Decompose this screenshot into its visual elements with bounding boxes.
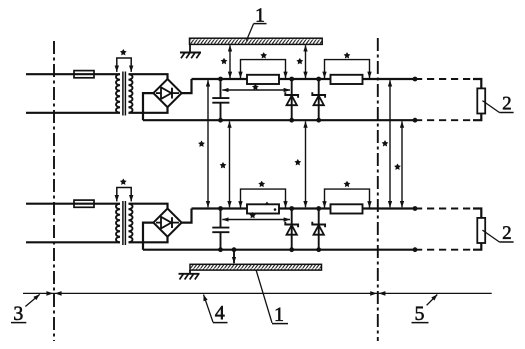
measurement bracket with star (R2 bottom) (325, 181, 370, 207)
bridge rectifier Vbottom (153, 209, 181, 237)
wire DC- rail (top) (143, 119, 415, 121)
label 3 (zone) (11, 294, 40, 322)
clearance arrow shield to DC+ at x305 with star (297, 45, 305, 78)
wire DC+ dashed output (bottom) (413, 206, 482, 218)
coupling arrow DC-top to DC+bottom at x229 with star (220, 121, 229, 207)
bridge rectifier Vtop (153, 79, 181, 107)
label 5 (zone) (412, 295, 438, 323)
dimension arrows at boundary 3/4 (46, 291, 61, 296)
measurement bracket with star (R1 top) (241, 53, 286, 78)
wire secondary top (bottom) (129, 204, 168, 209)
isolation bracket with star (transformer Tbottom) (117, 179, 131, 201)
boundary line 3/4 (dash-dot) (53, 41, 55, 341)
capacitor Cbottom (212, 206, 229, 252)
ground (top shield) (180, 44, 201, 58)
transformer Ttop (116, 72, 133, 116)
measurement bracket with star (R1 bottom) (241, 181, 286, 207)
zener diode VD1 (bottom) (285, 206, 298, 252)
wire secondary top (top) (129, 74, 168, 79)
zener diode VD1 (top) (285, 77, 298, 123)
wire bridge left corner to DC- (bottom) (143, 223, 153, 250)
dimension line (zones) (23, 292, 492, 294)
wire AC line bottom (bottom) (26, 241, 120, 243)
wire AC line bottom (top) (26, 112, 120, 114)
wire bridge right corner to DC+ (bottom) (182, 209, 192, 223)
wire DC- dashed output (bottom) (413, 243, 482, 252)
wire DC- rail (bottom) (143, 249, 415, 251)
wire bridge left corner to DC- (top) (143, 93, 153, 120)
ground (bottom shield) (179, 270, 200, 279)
transformer Tbottom (116, 201, 133, 245)
label 2 (bottom) (482, 226, 513, 242)
resistor R2 (top) (331, 75, 363, 84)
clearance arrow capacitor to VD1 with star (top) (222, 84, 290, 90)
coupling arrow DC+top to DC+bottom at x208 with star (199, 80, 208, 207)
label 2 (top) (482, 97, 513, 113)
wire bridge right corner to DC+ (top) (182, 79, 192, 93)
earth link DC- to shield (bottom) (232, 247, 237, 263)
capacitor Ctop (212, 77, 229, 123)
resistor R1 (bottom) (247, 204, 279, 213)
fuse Ftop (74, 71, 94, 78)
shield plate 1 (bottom) (190, 264, 322, 270)
label 1 (top shield) (246, 8, 266, 40)
label 4 (zone) (204, 295, 228, 323)
wire secondary bottom (bottom) (129, 237, 168, 243)
load resistor 2 (top) (477, 88, 485, 113)
resistor R2 (bottom) (331, 204, 363, 213)
dimension arrows at boundary 4/5 (370, 291, 385, 296)
wire secondary bottom (top) (129, 107, 168, 113)
wire AC line top (bottom) (26, 203, 120, 205)
wire DC+ rail (top) (192, 78, 416, 80)
boundary line 4/5 (dash-dot) (377, 38, 379, 341)
wire DC+ dashed output (top) (413, 77, 482, 89)
isolation bracket with star (transformer Ttop) (117, 50, 131, 72)
zener diode VD2 (bottom) (312, 206, 325, 252)
wire DC+ rail (bottom) (192, 207, 416, 209)
shield plate 1 (top) (190, 38, 323, 44)
clearance arrow capacitor to VD1 with star (bottom) (222, 213, 290, 220)
resistor R1 (top) (247, 75, 279, 84)
fuse Fbottom (74, 200, 94, 207)
measurement bracket with star (R2 top) (325, 53, 370, 78)
wire AC line top (top) (26, 73, 120, 75)
load resistor 2 (bottom) (477, 218, 485, 243)
speck on resistor R1 (bottom) (265, 202, 276, 211)
label 1 (bottom shield) (256, 270, 288, 323)
coupling arrow DC-top to DC+bottom at x305 with star (295, 121, 305, 207)
clearance arrow shield to DC+ at x230 with star (221, 45, 230, 78)
zener diode VD2 (top) (312, 77, 325, 123)
wire DC- dashed output (top) (413, 114, 482, 123)
coupling arrow DC+top to DC+bottom at x390 with star (382, 80, 390, 207)
coupling arrow DC-top to DC+bottom at x402 with star (395, 121, 402, 207)
